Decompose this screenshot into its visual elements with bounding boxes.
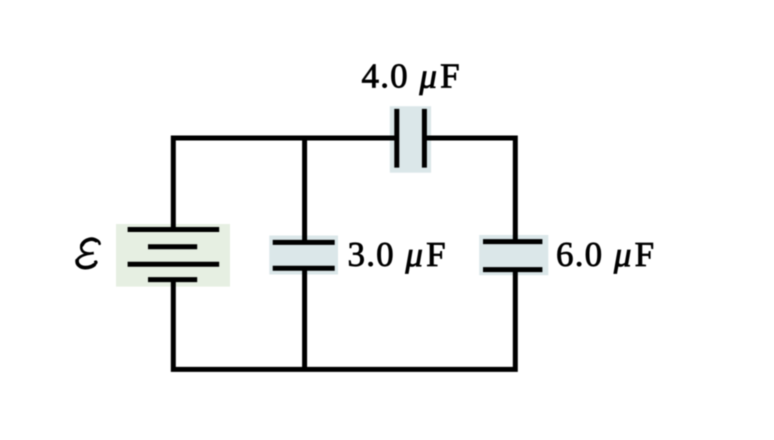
capacitor C3 highlight box (6.0 uF)	[479, 235, 548, 275]
wire: C2 bottom plate down to bottom rail	[302, 268, 307, 369]
svg-text:6.0μF: 6.0μF	[556, 235, 655, 274]
battery highlight box	[116, 224, 230, 287]
battery E: plate 2 (short)	[148, 244, 197, 249]
svg-text:4.0μF: 4.0μF	[362, 57, 461, 96]
capacitor C2 bottom plate	[273, 266, 335, 271]
wire: C1 right plate to top-right corner down to C3 top plate	[423, 138, 516, 242]
wire: battery negative terminal down, bottom rail, up to C3 bottom plate	[173, 270, 515, 370]
wire: left rail + top rail to C1 left plate	[173, 138, 398, 230]
svg-text:3.0μF: 3.0μF	[348, 235, 447, 274]
capacitor C1 right plate	[422, 109, 427, 168]
capacitor C1 highlight box (4.0 uF)	[390, 106, 431, 173]
capacitor C2 highlight box (3.0 uF)	[269, 236, 338, 275]
wire: middle branch from top rail junction to C2 top plate	[302, 138, 307, 242]
battery E: plate 4 (short, bottom)	[148, 277, 197, 282]
label script-E (EMF symbol)	[77, 239, 100, 268]
capacitor C1 left plate	[394, 109, 399, 168]
battery E: plate 3 (long)	[128, 262, 220, 267]
capacitor C3 bottom plate	[483, 267, 542, 272]
capacitor C3 top plate	[483, 239, 542, 244]
capacitor C2 top plate	[273, 240, 335, 245]
battery E: plate 1 (long, top)	[128, 227, 220, 232]
